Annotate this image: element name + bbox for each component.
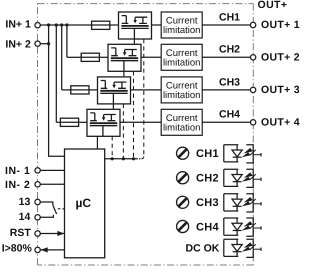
fuse F2 — [81, 53, 99, 61]
terminal 14 — [35, 215, 40, 220]
svg-text:IN- 2: IN- 2 — [5, 179, 30, 191]
svg-text:14: 14 — [19, 211, 31, 223]
svg-text:OUT+ 3: OUT+ 3 — [261, 84, 300, 96]
svg-text:CH1: CH1 — [196, 148, 219, 160]
terminal IN- 2 — [35, 182, 40, 187]
wire terminal 14 — [40, 215, 53, 218]
enclosure boundary (dash-dot frame) — [38, 4, 254, 265]
control line Q3 to uC (dashed) — [122, 104, 124, 158]
svg-text:IN- 1: IN- 1 — [5, 165, 30, 177]
svg-text:OUT+ 4: OUT+ 4 — [261, 116, 300, 128]
svg-text:DC OK: DC OK — [186, 242, 220, 254]
wire fuse F2 to Q2 — [99, 56, 108, 58]
control line Q1 to uC (dashed) — [139, 39, 144, 159]
svg-text:limitation: limitation — [163, 57, 201, 68]
junction control Q4 — [111, 157, 114, 160]
LED indicator CH4 — [224, 218, 261, 236]
terminal IN+ 2 — [35, 41, 40, 46]
MOSFET switch Q2 — [108, 44, 141, 71]
gate stub Q2 — [123, 71, 125, 76]
wire Q2 to current limitation CH2 — [141, 56, 161, 58]
svg-text:OUT+ 1: OUT+ 1 — [261, 19, 300, 31]
wire bus D vertical ch4 — [55, 25, 57, 122]
wire current limitation CH2 to OUT+2 — [202, 56, 250, 58]
svg-text:13: 13 — [19, 196, 31, 208]
svg-text:CH2: CH2 — [196, 173, 219, 185]
gate stub Q3 — [112, 104, 114, 109]
LED indicator CH3 — [224, 194, 261, 212]
arrowhead RST into uC — [57, 231, 64, 236]
control line Q4 to uC (dashed) — [111, 136, 113, 157]
terminal I>80% — [35, 247, 40, 252]
LED indicator CH2 — [224, 169, 261, 187]
svg-text:CH3: CH3 — [219, 76, 240, 88]
wire terminal 13 — [40, 202, 53, 205]
wire fuse F4 to Q4 — [79, 121, 87, 123]
svg-text:CH4: CH4 — [219, 109, 240, 121]
control line Q2 to uC (dashed) — [133, 71, 135, 157]
wire ch2 row to fuse F2 — [67, 56, 81, 58]
switch S1 link to uC (dashed) — [58, 208, 65, 210]
current limitation block CH2 — [161, 44, 202, 70]
gate wire Q4 to uC — [96, 136, 98, 149]
wire ch4 row to fuse F4 — [56, 121, 60, 123]
junction bus A on IN+1 wire — [47, 23, 50, 26]
current limitation block CH1 — [161, 12, 202, 38]
wire IN+1 to fuse F1 — [40, 24, 91, 26]
terminal OUT+ 1 — [250, 22, 255, 27]
terminal OUT+ 3 — [250, 87, 255, 92]
wire fuse F1 to Q1 — [110, 24, 119, 26]
svg-text:I>80%: I>80% — [2, 243, 33, 255]
wire fuse F3 to Q3 — [89, 89, 98, 91]
svg-text:IN+ 2: IN+ 2 — [5, 38, 31, 50]
current limitation block CH4 — [161, 109, 202, 135]
svg-text:CH3: CH3 — [196, 197, 219, 209]
svg-text:IN+ 1: IN+ 1 — [5, 19, 31, 31]
svg-text:CH1: CH1 — [219, 11, 240, 23]
junction bus C on IN+1 wire — [60, 23, 63, 26]
svg-text:RST: RST — [10, 227, 32, 239]
svg-text:µC: µC — [76, 196, 92, 210]
junction control Q3 — [122, 157, 125, 160]
wire IN+2 to bus A — [40, 43, 48, 45]
wire ch3 row to fuse F3 — [62, 89, 71, 91]
MOSFET switch Q1 — [119, 12, 152, 39]
svg-text:OUT+ 2: OUT+ 2 — [261, 51, 300, 63]
svg-text:OUT+: OUT+ — [258, 0, 288, 11]
LED indicator CH1 — [224, 145, 261, 163]
control bus line into uC — [105, 158, 138, 160]
gate stub Q1 — [133, 39, 135, 44]
wire current limitation CH4 to OUT+4 — [202, 121, 250, 123]
junction bus D on IN+1 wire — [55, 23, 58, 26]
fuse F1 — [92, 21, 110, 29]
potentiometer CH4 — [177, 220, 189, 232]
wire Q3 to current limitation CH3 — [131, 89, 162, 91]
junction control Q2 — [132, 157, 135, 160]
terminal RST — [35, 231, 40, 236]
terminal OUT+ 4 — [250, 120, 255, 125]
MOSFET switch Q4 — [87, 109, 120, 136]
microcontroller U1 — [65, 149, 105, 258]
wire Q4 to current limitation CH4 — [120, 121, 161, 123]
potentiometer CH1 — [177, 147, 189, 159]
fuse F4 — [60, 118, 78, 126]
MOSFET switch Q3 — [98, 77, 131, 104]
arrowhead I>80% out of uC — [41, 247, 48, 252]
junction IN+2 on bus A — [47, 42, 50, 45]
wire bus C vertical ch3 — [61, 25, 63, 90]
current limitation block CH3 — [161, 77, 202, 103]
wire IN-2 to uC — [40, 183, 64, 185]
terminal OUT+ 2 — [250, 55, 255, 60]
wire I>80% from uC — [40, 249, 64, 251]
junction bus B on IN+1 wire — [65, 23, 68, 26]
terminal IN- 1 — [35, 168, 40, 173]
switch S1 blade — [53, 205, 57, 214]
svg-text:limitation: limitation — [163, 25, 201, 36]
wire IN-1 to uC — [40, 169, 64, 171]
svg-text:limitation: limitation — [163, 90, 201, 101]
svg-text:CH2: CH2 — [219, 44, 240, 56]
svg-text:CH4: CH4 — [196, 221, 219, 233]
potentiometer CH3 — [177, 196, 189, 208]
potentiometer CH2 — [177, 172, 189, 184]
fuse F3 — [71, 86, 89, 94]
wire RST to uC — [40, 233, 64, 235]
LED indicator DC OK — [224, 239, 261, 257]
wire Q1 to current limitation CH1 — [152, 24, 162, 26]
wire current limitation CH1 to OUT+1 — [202, 24, 250, 26]
wire bus A vertical to uC — [49, 25, 65, 156]
wire bus B vertical ch2 — [66, 25, 68, 57]
terminal IN+ 1 — [35, 23, 40, 28]
wire current limitation CH3 to OUT+3 — [202, 89, 250, 91]
terminal 13 — [35, 199, 40, 204]
svg-text:limitation: limitation — [163, 122, 201, 133]
